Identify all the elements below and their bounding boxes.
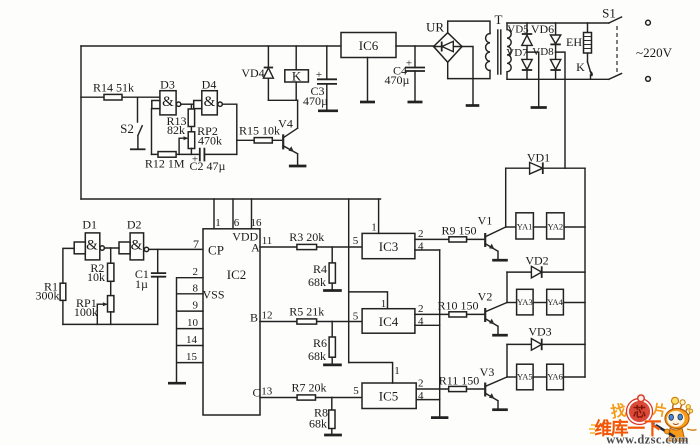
wire D2 output to CP pin 7 <box>149 237 203 251</box>
svg-text:&: & <box>131 238 143 254</box>
svg-text:S2: S2 <box>120 121 134 136</box>
IC2 grounded pin ladder 2,8,9,10,14,15 <box>177 266 204 382</box>
svg-text:82k: 82k <box>167 123 185 137</box>
svg-text:R5 21k: R5 21k <box>289 305 324 319</box>
wire VDD top rail <box>81 45 341 47</box>
diode VD2 <box>507 254 585 278</box>
svg-text:V3: V3 <box>480 365 495 379</box>
wire VDD left vertical <box>80 46 82 199</box>
diode VD8 <box>532 46 560 79</box>
resistor R3 <box>289 230 324 250</box>
IC3 pin 4 wire <box>415 241 440 253</box>
diode VD4 <box>241 46 273 100</box>
transistor V1 <box>478 214 506 259</box>
capacitor C3 <box>303 46 337 110</box>
svg-text:VD8: VD8 <box>532 46 554 58</box>
svg-text:&: & <box>204 94 216 110</box>
IC5 <box>353 383 416 409</box>
capacitor C2 <box>190 148 237 173</box>
resistor R15 <box>237 124 283 144</box>
resistor R1 <box>36 280 66 325</box>
transformer T primary winding <box>486 34 490 71</box>
svg-text:16: 16 <box>251 217 263 229</box>
ground under V3 <box>492 408 508 411</box>
svg-text:2: 2 <box>418 228 424 240</box>
transformer T core <box>495 12 503 74</box>
svg-text:&: & <box>162 94 174 110</box>
relay contact K <box>576 60 592 79</box>
IC4 pin 2 wire <box>415 303 449 315</box>
svg-text:&: & <box>86 238 98 254</box>
resistor R7 <box>291 381 326 401</box>
resistor R11 <box>439 374 485 392</box>
bridge rectifier UR <box>426 20 462 63</box>
gate D3 <box>152 78 181 115</box>
ground under C3 <box>318 109 338 112</box>
wire V1 collector riser <box>505 168 507 227</box>
wire VD4/K junction row <box>268 99 297 101</box>
svg-text:+: + <box>316 69 322 81</box>
svg-text:S1: S1 <box>602 6 616 21</box>
wire secondary bottom rail <box>507 78 609 80</box>
wire D4 output vertical <box>222 104 237 154</box>
svg-text:VD6: VD6 <box>531 22 554 36</box>
IC3 <box>353 233 415 258</box>
resistor R10 <box>437 299 485 318</box>
resistor R14 <box>81 81 160 101</box>
svg-text:68k: 68k <box>308 275 326 289</box>
svg-text:100k: 100k <box>74 305 98 319</box>
ground under R6 <box>323 364 342 367</box>
svg-text:R9 150: R9 150 <box>441 224 476 238</box>
resistor R13 <box>166 104 194 137</box>
svg-text:2: 2 <box>193 266 199 278</box>
node ~220V <box>636 45 673 60</box>
ground under pin4 rail <box>431 416 448 419</box>
svg-text:V2: V2 <box>478 290 493 304</box>
solenoid YA1 <box>506 213 534 239</box>
svg-text:R3 20k: R3 20k <box>289 230 324 244</box>
svg-text:VSS: VSS <box>202 288 224 302</box>
svg-text:1: 1 <box>394 365 400 377</box>
wire V2 collector riser <box>506 272 508 302</box>
resistor R9 <box>441 224 485 243</box>
svg-text:2: 2 <box>418 378 424 390</box>
solenoid YA6 <box>533 364 585 390</box>
svg-text:T: T <box>495 12 503 27</box>
svg-text:K: K <box>576 60 585 74</box>
ground under transformer secondary <box>531 106 547 109</box>
transformer T secondary winding <box>507 23 511 79</box>
svg-text:1: 1 <box>371 222 377 234</box>
svg-text:VD7: VD7 <box>506 47 528 59</box>
capacitor C1 <box>135 249 166 324</box>
svg-text:芯: 芯 <box>633 405 646 420</box>
wire IC4 IC5 pin1 feeder <box>348 199 350 363</box>
gate D4 <box>194 78 223 115</box>
svg-text:B: B <box>250 311 258 325</box>
IC4 pin 1 <box>349 292 388 310</box>
svg-text:2: 2 <box>418 303 424 315</box>
svg-text:470µ: 470µ <box>303 94 328 108</box>
resistor R8 <box>309 398 335 434</box>
svg-text:K: K <box>292 69 302 84</box>
ground under UR <box>466 104 480 107</box>
svg-text:12: 12 <box>262 310 273 322</box>
wire right rail <box>584 168 586 377</box>
IC4 pin 4 wire <box>415 316 440 328</box>
ground under C4 <box>408 101 423 104</box>
svg-text:V4: V4 <box>278 117 293 131</box>
svg-text:EH: EH <box>566 35 582 49</box>
capacitor C4 <box>385 46 425 101</box>
svg-text:1: 1 <box>215 217 221 229</box>
wire UR ac loop to transformer primary <box>448 21 490 79</box>
svg-text:CP: CP <box>208 243 224 258</box>
transistor V3 <box>480 365 507 408</box>
svg-text:V1: V1 <box>478 214 493 228</box>
svg-text:D4: D4 <box>202 78 217 92</box>
resistor R4 <box>308 247 335 289</box>
svg-text:YA5: YA5 <box>517 372 533 382</box>
wire row C pin 13 <box>260 386 362 398</box>
svg-text:5: 5 <box>353 235 359 247</box>
transistor V4 <box>278 100 297 164</box>
watermark mascot <box>652 397 697 441</box>
ground under R4 <box>323 289 342 292</box>
wire D1 input feedback <box>63 248 74 283</box>
ground under V1 <box>492 259 508 262</box>
ground under V4 <box>289 165 307 168</box>
diode VD1 <box>506 151 585 175</box>
svg-text:VD3: VD3 <box>528 325 551 339</box>
svg-text:5: 5 <box>353 385 359 397</box>
svg-text:10k: 10k <box>87 270 105 284</box>
IC2 <box>202 229 260 415</box>
svg-text:IC2: IC2 <box>227 267 247 282</box>
wire oscillator bottom row <box>63 323 158 325</box>
diode VD6 <box>531 22 561 52</box>
wire D3 feedback vertical <box>151 109 153 155</box>
resistor R12 <box>145 152 200 171</box>
gate D2 <box>119 218 149 260</box>
relay coil K <box>285 46 309 100</box>
IC5 pin 2 wire <box>416 378 449 390</box>
watermark logo dzsc <box>589 395 689 445</box>
IC5 pin 4 wire <box>416 390 440 402</box>
diode VD7 <box>506 47 532 79</box>
svg-text:7: 7 <box>193 237 199 251</box>
IC5 pin 1 <box>349 363 400 384</box>
svg-text:A: A <box>251 241 260 255</box>
resistor R2 <box>87 248 114 296</box>
wire secondary top rail <box>507 22 609 24</box>
svg-text:8: 8 <box>193 282 199 294</box>
svg-text:9: 9 <box>193 300 199 312</box>
IC4 <box>353 309 415 334</box>
svg-text:D2: D2 <box>127 218 142 232</box>
solenoid YA2 <box>533 213 585 239</box>
resistor R6 <box>308 322 335 364</box>
svg-text:15: 15 <box>186 351 198 363</box>
svg-text:470µ: 470µ <box>385 73 410 87</box>
svg-text:R12 1M: R12 1M <box>145 157 185 171</box>
ground under IC2 ladder <box>168 382 186 385</box>
svg-text:R7 20k: R7 20k <box>291 381 326 395</box>
svg-text:R10 150: R10 150 <box>437 299 478 313</box>
svg-text:D1: D1 <box>82 218 97 232</box>
svg-text:UR: UR <box>426 20 444 35</box>
switch S2 <box>120 97 145 149</box>
resistor R5 <box>289 305 324 325</box>
solenoid YA3 <box>507 289 533 315</box>
svg-text:R15 10k: R15 10k <box>239 124 280 138</box>
svg-text:YA4: YA4 <box>547 297 563 307</box>
ground under IC6 <box>360 101 375 104</box>
gate D1 <box>74 218 104 260</box>
svg-text:5: 5 <box>353 311 359 323</box>
IC3 pin 2 wire <box>415 228 449 240</box>
svg-text:VD1: VD1 <box>527 151 550 165</box>
svg-text:YA1: YA1 <box>517 222 533 232</box>
transistor V2 <box>478 290 507 334</box>
regulator IC6 <box>341 33 396 102</box>
svg-text:470k: 470k <box>198 134 222 148</box>
potentiometer RP1 <box>74 296 114 325</box>
solenoid YA4 <box>533 289 585 315</box>
svg-text:14: 14 <box>186 334 198 346</box>
wire D3 output to D4 input <box>181 103 194 105</box>
ground under R8 <box>324 434 342 437</box>
svg-text:片: 片 <box>651 401 668 420</box>
potentiometer RP2 <box>179 124 222 154</box>
switch S1 <box>602 6 650 82</box>
solenoid YA5 <box>507 364 533 390</box>
IC2 pin 6 <box>233 199 240 229</box>
diode VD3 <box>507 325 585 351</box>
svg-text:IC4: IC4 <box>379 314 399 329</box>
svg-text:R14 51k: R14 51k <box>93 81 134 95</box>
ground under V2 <box>492 334 508 337</box>
wire IC6 output to UR <box>396 45 434 47</box>
svg-text:www.dzsc.com: www.dzsc.com <box>606 433 689 445</box>
svg-text:R11 150: R11 150 <box>439 374 480 388</box>
svg-text:1: 1 <box>381 298 387 310</box>
svg-text:VD4: VD4 <box>241 66 264 80</box>
svg-text:1µ: 1µ <box>135 277 148 291</box>
svg-text:C2 47µ: C2 47µ <box>190 159 226 173</box>
svg-text:IC3: IC3 <box>379 239 399 254</box>
svg-text:6: 6 <box>234 217 240 229</box>
svg-text:4: 4 <box>418 390 424 402</box>
wire UR return to ground <box>462 47 473 105</box>
svg-text:VD5: VD5 <box>507 24 529 36</box>
svg-text:YA6: YA6 <box>547 372 563 382</box>
wire VD5-VD7 junction to ground <box>527 52 539 106</box>
IC2 pin 1 <box>214 199 221 229</box>
svg-text:68k: 68k <box>308 349 326 363</box>
wire pin4 common to ground <box>439 250 441 416</box>
svg-text:YA3: YA3 <box>517 297 533 307</box>
svg-text:300k: 300k <box>36 289 60 303</box>
wire VDD distribution rail <box>81 198 381 200</box>
svg-text:4: 4 <box>418 241 424 253</box>
svg-text:~220V: ~220V <box>636 45 673 60</box>
wire row A pin 11 <box>260 235 362 247</box>
svg-text:IC5: IC5 <box>379 389 399 404</box>
svg-text:68k: 68k <box>309 417 327 431</box>
IC3 pin 1 <box>371 199 378 234</box>
svg-text:4: 4 <box>418 316 424 328</box>
IC2 pin 16 <box>251 199 263 229</box>
wire V3 collector riser <box>506 344 508 377</box>
diode VD5 <box>507 23 532 52</box>
svg-text:D3: D3 <box>160 78 175 92</box>
svg-text:13: 13 <box>261 386 273 398</box>
svg-text:11: 11 <box>262 235 273 247</box>
svg-text:IC6: IC6 <box>359 38 379 53</box>
svg-text:YA2: YA2 <box>548 222 564 232</box>
svg-text:10: 10 <box>187 317 199 329</box>
wire VD6-VD8 junction feed <box>556 52 565 168</box>
heater element EH <box>566 23 592 62</box>
svg-text:VD2: VD2 <box>525 254 548 268</box>
wire D1 output to D2 <box>104 247 119 249</box>
wire row B pin 12 <box>260 310 362 322</box>
